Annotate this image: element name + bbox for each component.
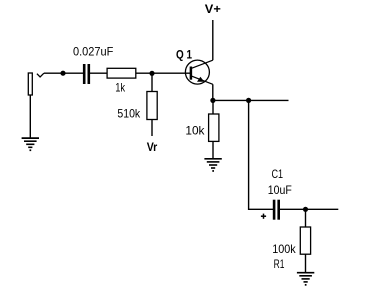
svg-text:Vr: Vr [147,140,158,154]
resistor R 1k [107,68,136,78]
svg-text:10uF: 10uF [268,183,292,197]
ground (input jack) [22,138,39,151]
wire capacitor to resistor 1k [90,72,107,74]
svg-text:100k: 100k [272,242,296,256]
connector J1 input jack body [28,73,44,95]
capacitor C1 10uF [274,200,279,220]
wire C1 branch down and right [249,100,273,209]
wire R1 to ground [305,254,307,272]
wire jack body to ground [29,95,31,138]
wire emitter down to node [212,84,214,100]
ground (R1) [297,273,314,286]
resistor R 10k [209,114,219,141]
wire resistor 1k to transistor base [136,72,190,74]
wire collector to V+ [212,20,214,60]
wire jack to capacitor [44,72,83,74]
node input junction [60,71,65,76]
wire junction down to 510k [151,73,153,91]
capacitor 0.027uF [84,64,89,84]
svg-text:Q 1: Q 1 [176,47,192,61]
wire 10k to ground [212,141,214,158]
polarity plus sign of C1 [261,214,266,219]
resistor R 510k [147,92,157,120]
svg-text:510k: 510k [117,107,141,121]
wire C1 to output [280,208,338,210]
transistor Q1 [185,60,212,84]
ground (10k) [204,159,221,172]
svg-text:R1: R1 [274,257,285,271]
node R1 junction [303,207,308,212]
node base junction [149,71,154,76]
resistor R1 100k [300,227,310,254]
node emitter junction [210,98,215,103]
wire 510k to Vr terminal [151,120,153,137]
wire node down to R1 [305,209,307,227]
svg-text:10k: 10k [185,123,205,137]
svg-text:1k: 1k [115,81,126,95]
wire emitter node down to 10k [212,100,214,114]
node C1 branch junction [246,98,251,103]
svg-text:0.027uF: 0.027uF [73,44,113,58]
svg-text:C1: C1 [272,167,284,181]
svg-text:V+: V+ [205,2,221,16]
wire emitter node to output [213,99,289,101]
